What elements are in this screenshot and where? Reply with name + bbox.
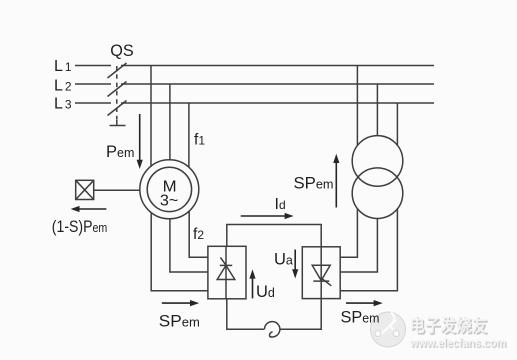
- watermark logo elecfans: [371, 312, 406, 347]
- wire L2 line right: [121, 83, 434, 85]
- arrow SPem right (rotor side): [162, 302, 193, 304]
- wire transformer tap from L3: [396, 103, 398, 146]
- arrow Ua down: [294, 250, 296, 273]
- load box square: [76, 180, 94, 199]
- switch QS linkage dashed: [116, 66, 118, 120]
- wire L3 line right: [121, 102, 434, 104]
- wire rotor lead right: [189, 212, 208, 258]
- load box diagonal 2: [76, 180, 94, 199]
- svg-text:Ud: Ud: [256, 283, 275, 301]
- svg-text:SPem: SPem: [341, 308, 380, 326]
- rectifier U1 triangle: [217, 265, 235, 279]
- svg-text:www.elecfans.com: www.elecfans.com: [409, 338, 506, 350]
- svg-text:SPem: SPem: [294, 175, 334, 193]
- wire L2 line left: [75, 83, 111, 85]
- switch QS blade L1: [108, 63, 127, 78]
- wire transformer tap from L2: [376, 84, 378, 136]
- svg-text:Pem: Pem: [106, 143, 134, 161]
- wire shaft to load box: [94, 189, 141, 191]
- rectifier U1 box: [208, 246, 246, 298]
- arrow Ud up: [252, 276, 254, 299]
- arrow SPem right (inverter side): [346, 302, 377, 304]
- switch QS blade L3: [108, 101, 127, 116]
- inductor L loop: [264, 322, 279, 337]
- svg-text:f1: f1: [194, 132, 205, 149]
- arrow Pem down: [139, 114, 141, 163]
- wire transformer to inverter bottom: [340, 208, 397, 290]
- wire transformer to inverter top: [340, 208, 357, 257]
- svg-text:SPem: SPem: [159, 312, 200, 330]
- wire stator tap from L1: [150, 66, 152, 168]
- svg-text:f2: f2: [193, 226, 204, 243]
- motor M outer circle: [140, 160, 199, 219]
- rectifier U1 gate tick: [220, 257, 226, 266]
- inverter U2 triangle: [312, 265, 330, 280]
- rectifier U1 cathode bar: [220, 264, 232, 266]
- svg-text:Ua: Ua: [274, 251, 293, 269]
- wire L1 line right: [121, 65, 434, 67]
- switch QS linkage end bar: [110, 125, 126, 127]
- svg-text:(1-S)Pem: (1-S)Pem: [52, 218, 107, 236]
- arrow Id right: [241, 215, 287, 217]
- inverter U2 vertical lead: [320, 247, 322, 299]
- arrow (1-S)Pem left: [77, 208, 106, 210]
- wire rotor lead left: [151, 213, 208, 291]
- switch QS linkage last segment: [116, 120, 118, 126]
- wire rotor lead middle: [170, 219, 208, 272]
- switch QS blade L2: [108, 82, 127, 97]
- wire DC link bottom right: [280, 299, 321, 330]
- arrow SPem up (transformer): [335, 160, 337, 208]
- wire stator tap from L3: [188, 103, 190, 167]
- svg-text:Id: Id: [275, 196, 286, 213]
- wire L3 line left: [75, 102, 111, 104]
- svg-text:QS: QS: [110, 42, 134, 60]
- inverter U2 box: [302, 247, 340, 299]
- svg-text:电子发烧友: 电子发烧友: [410, 316, 488, 336]
- wire DC link top: [227, 225, 321, 247]
- load box diagonal 1: [76, 180, 94, 199]
- inverter U2 anode bar: [313, 280, 329, 282]
- rectifier U1 vertical lead: [225, 246, 227, 298]
- wire transformer to inverter middle: [340, 219, 377, 273]
- svg-text:3~: 3~: [160, 193, 179, 210]
- wire DC link bottom left: [227, 299, 264, 329]
- transformer T lower circle: [352, 168, 403, 219]
- wire transformer tap from L1: [356, 66, 358, 146]
- wire L1 line left: [75, 65, 111, 67]
- motor M inner circle: [147, 167, 191, 211]
- transformer T upper circle: [352, 136, 403, 187]
- inverter U2 gate tick: [322, 279, 331, 286]
- wire stator tap from L2: [169, 84, 171, 161]
